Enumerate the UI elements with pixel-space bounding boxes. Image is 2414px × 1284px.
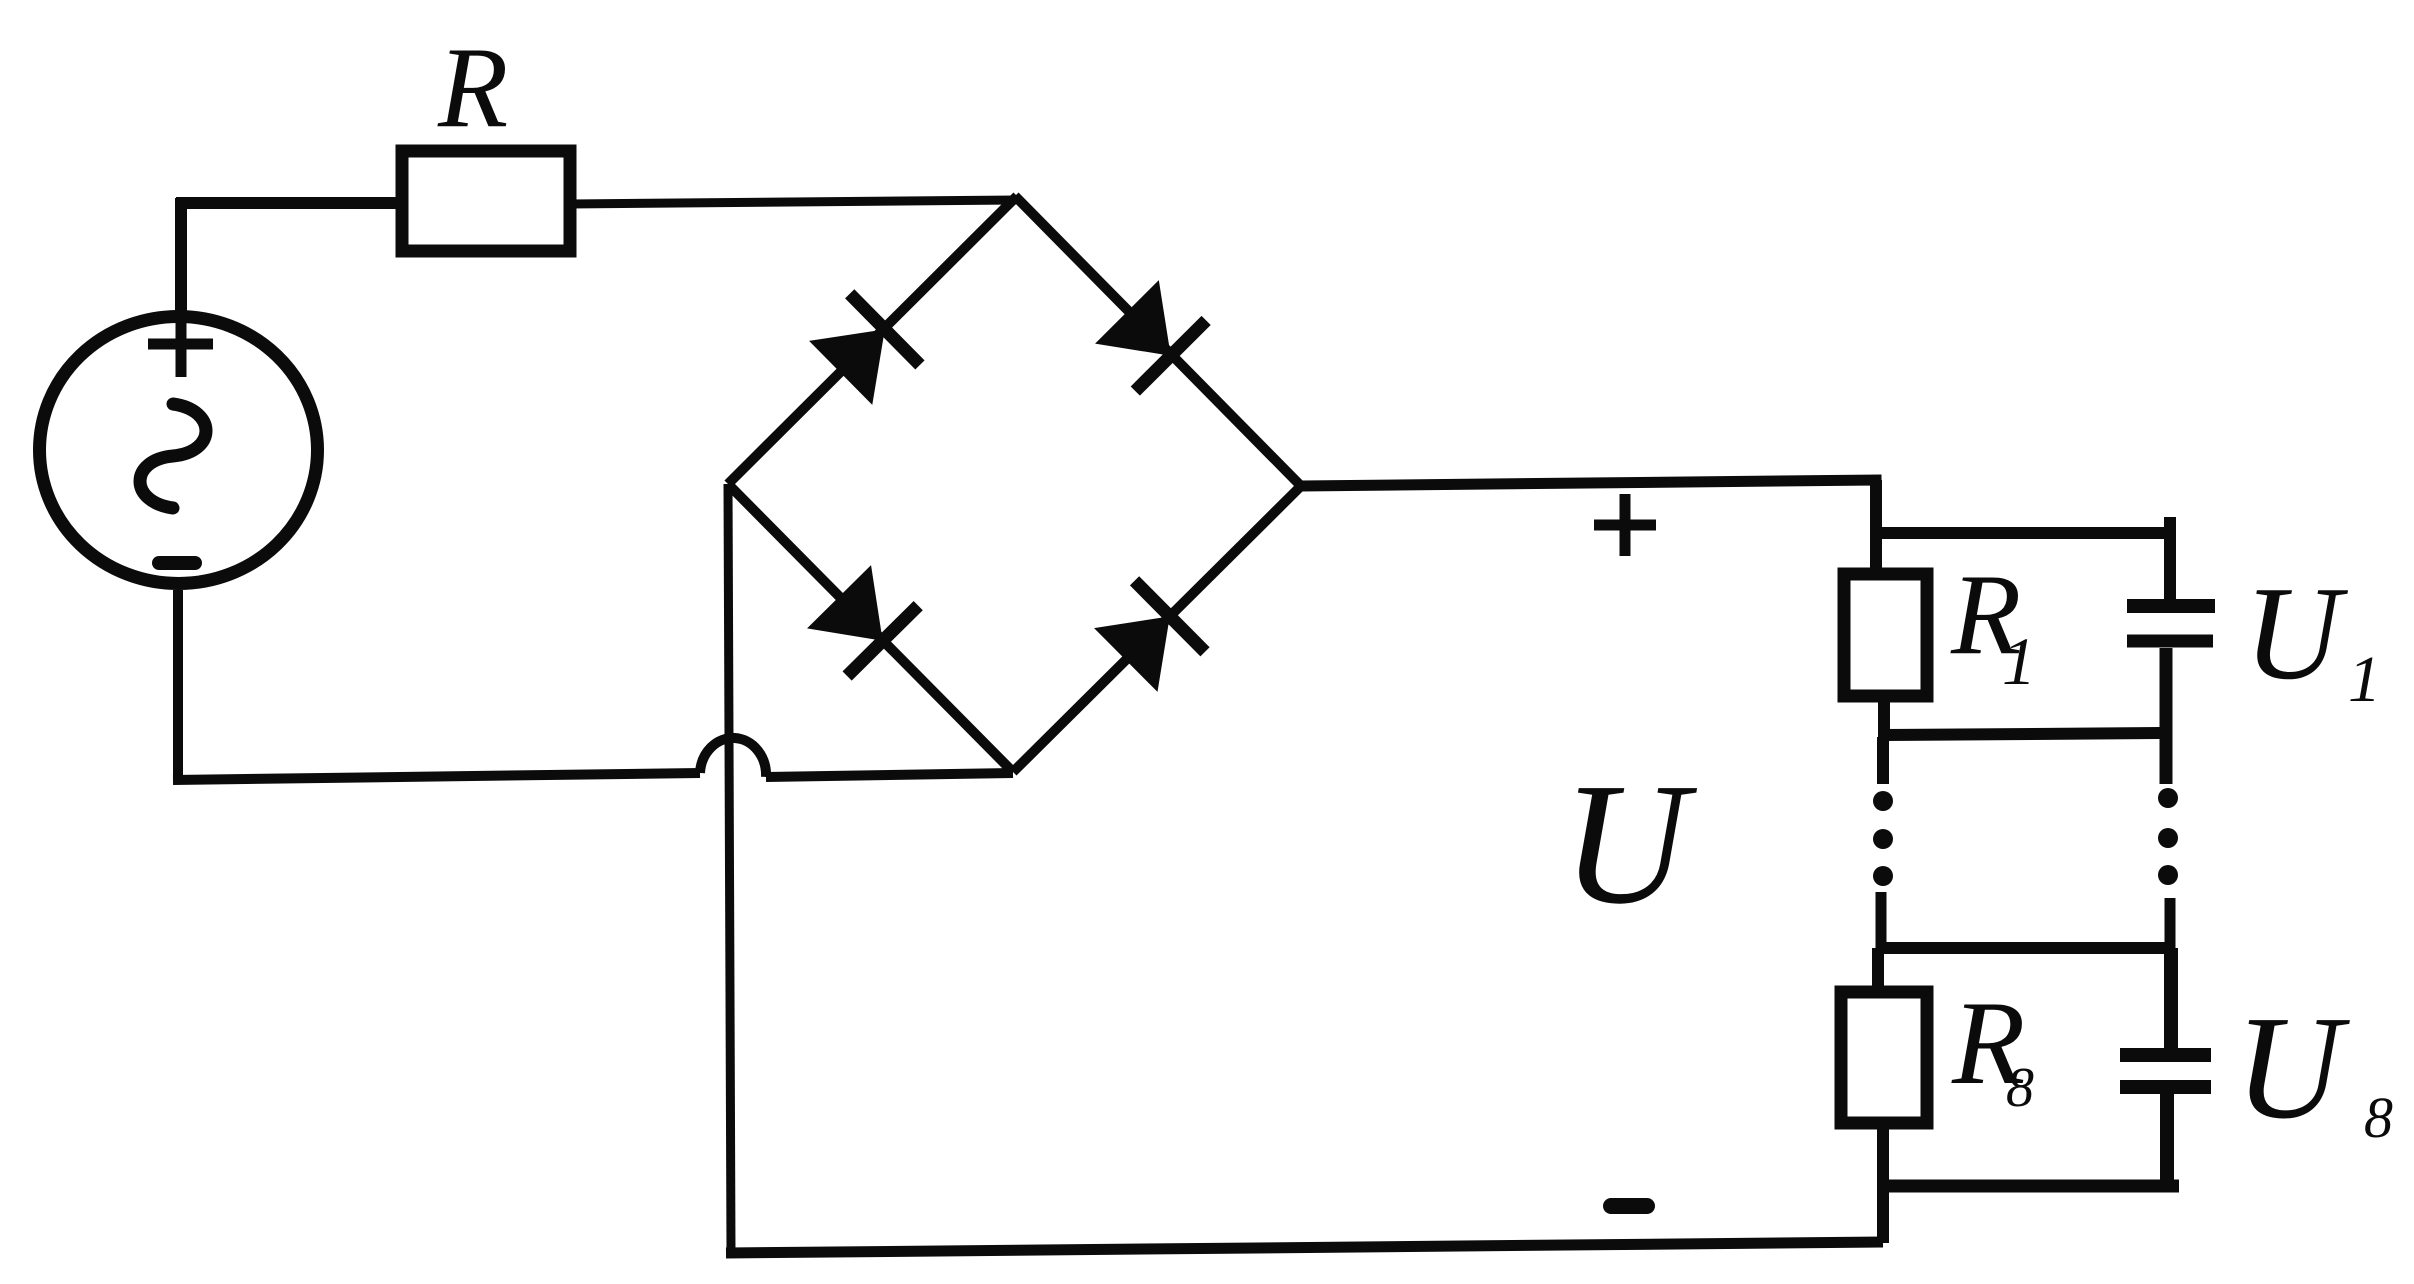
resistor R1 body	[1844, 574, 1927, 696]
svg-text:1: 1	[2002, 623, 2036, 699]
capacitor C1 bottom stub	[2160, 648, 2173, 784]
wire pair8 to bottom rail	[1877, 1186, 1889, 1243]
wire into resistor R8	[1872, 948, 1884, 994]
left chain stub below pair1	[1877, 737, 1889, 784]
svg-text:U: U	[2235, 986, 2350, 1150]
AC source plus polarity mark	[148, 312, 213, 377]
right chain stub above pair8	[2165, 898, 2176, 950]
svg-text:8: 8	[2006, 1057, 2034, 1119]
AC source sine symbol	[140, 404, 206, 508]
capacitor C1 bottom plate	[2127, 635, 2213, 648]
diode D3 bottom-left arm	[804, 562, 919, 676]
bottom rail wire	[726, 1242, 1883, 1253]
wire R1 bottom stub	[1878, 696, 1890, 737]
left chain dots	[1873, 791, 1893, 886]
svg-text:U: U	[1562, 747, 1698, 940]
capacitor C8 top plate	[2120, 1048, 2211, 1062]
wire bottom horizontal to hop	[173, 773, 700, 780]
wire pair8 bottom	[1883, 1180, 2179, 1193]
bridge edge top-right	[1015, 196, 1301, 486]
AC source V1 circle	[40, 317, 318, 584]
svg-text:U: U	[2244, 559, 2349, 707]
minus output label	[1611, 1198, 1647, 1214]
capacitor C8 bottom plate	[2120, 1080, 2211, 1094]
diode D1 top-left arm	[806, 294, 920, 409]
svg-text:8: 8	[2364, 1085, 2393, 1150]
wire R8 bottom stub	[1877, 1123, 1889, 1188]
wire pair1 top	[1876, 527, 2170, 539]
diode D2 top-right arm	[1092, 277, 1207, 392]
capacitor C8 bottom stub	[2160, 1094, 2174, 1186]
wire top horizontal to resistor R	[176, 197, 402, 209]
wire resistor R to bridge top node	[570, 200, 1016, 204]
bridge edge top-left	[728, 196, 1017, 484]
capacitor C8 top stub	[2164, 948, 2178, 1049]
wire pair1 bottom	[1884, 733, 2167, 735]
wire source top to corner	[175, 198, 187, 311]
wire output corner down to branch node	[1870, 480, 1882, 533]
wire source bottom	[173, 590, 183, 780]
capacitor C1 top stub	[2164, 517, 2176, 600]
resistor R8 body	[1841, 992, 1927, 1123]
wire hop to bridge bottom node	[766, 773, 1013, 777]
AC source minus polarity mark	[159, 556, 195, 570]
left chain stub above pair8	[1876, 892, 1887, 950]
wire bridge left node down	[728, 484, 731, 1253]
wire hop over vertical wire	[700, 738, 766, 777]
svg-text:1: 1	[2348, 643, 2381, 716]
plus output label	[1594, 494, 1656, 556]
wire pair8 top	[1881, 942, 2171, 954]
wire branch to resistor R1	[1870, 531, 1882, 578]
resistor R body	[402, 151, 570, 251]
wire bridge right node to output corner	[1301, 480, 1876, 500]
capacitor C1 top plate	[2127, 599, 2215, 613]
diode D4 bottom-right arm	[1091, 581, 1205, 696]
bridge edge bottom-left	[728, 484, 1013, 772]
bridge edge bottom-right	[1013, 486, 1301, 772]
svg-text:R: R	[437, 24, 508, 151]
right chain dots	[2158, 788, 2178, 885]
